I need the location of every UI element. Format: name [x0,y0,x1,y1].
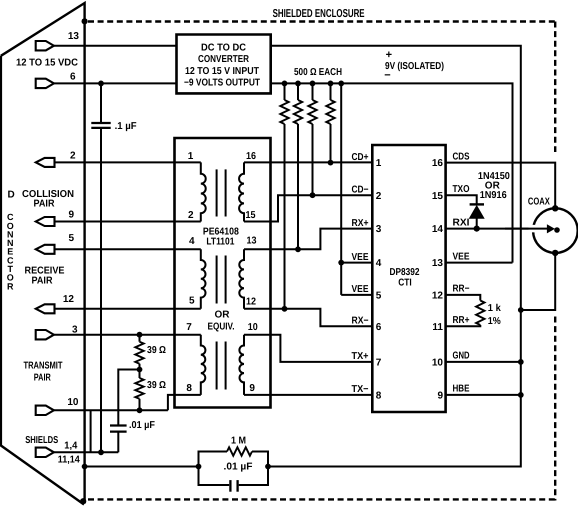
svg-text:.1 µF: .1 µF [115,121,137,132]
svg-text:12: 12 [63,294,75,305]
wire: VEE to pin4 [341,262,372,264]
junction coax shell/rail [518,307,524,313]
connector pin 12 [36,304,55,313]
svg-text:2: 2 [188,210,194,221]
svg-text:RX+: RX+ [352,218,369,229]
shielded enclosure dashed border (right upper) [554,22,556,153]
transformer PE64108 box [175,138,271,408]
svg-text:COAX: COAX [528,196,550,207]
svg-text:9V (ISOLATED): 9V (ISOLATED) [385,61,444,72]
svg-text:4: 4 [376,258,382,269]
RC network bottom frame [199,467,269,486]
wire: pin2 to transformer pin1 [54,161,201,163]
wire: RXI to coax center [446,228,533,230]
svg-text:10: 10 [432,358,444,369]
transformer winding 1-2 (left) [201,162,206,221]
wire: pin13 to DC-DC input (top) [54,45,177,47]
svg-text:13: 13 [247,236,257,247]
svg-text:1N916: 1N916 [480,190,507,201]
svg-text:OR: OR [215,310,231,321]
svg-text:500 Ω EACH: 500 Ω EACH [294,67,342,78]
svg-text:2: 2 [70,151,76,162]
svg-text:GND: GND [453,351,470,362]
svg-text:9: 9 [437,391,443,402]
svg-text:1 k: 1 k [488,303,501,314]
svg-text:4: 4 [189,236,195,247]
transformer winding 7-8 (left) [201,335,206,395]
wire [297,83,299,100]
wire: pin10 line to transformer pin8 [168,395,201,410]
junction: enclosure to D shell (top) [82,18,88,24]
svg-text:13: 13 [432,258,444,269]
junction 500ohm #3 / CD- [310,192,316,198]
wire [284,83,286,100]
wire: 1k to RR+ [446,325,481,326]
svg-text:PAIR: PAIR [34,373,52,384]
junction RC right [265,464,271,470]
svg-text:CD−: CD− [352,184,369,195]
wire: 500ohm #3 down to CD- line [312,124,314,195]
wire: transformer pin12 to RX- (pin6) [244,309,372,326]
junction diode/RXI [474,226,480,232]
wire: pin10 line to shields line [90,410,92,452]
junction between 39 ohm resistors [137,367,143,373]
svg-text:12: 12 [432,291,444,302]
svg-text:14: 14 [432,224,444,235]
svg-text:15: 15 [432,191,444,202]
wire: 39ohm midpoint to .01uF cap [118,370,139,426]
junction 500ohm #4 / CD+ [328,160,334,166]
connector pin 13 [36,41,54,50]
IC DP8392 CTI box [372,145,445,412]
connector pin 6 [36,79,54,88]
svg-text:D: D [7,190,14,201]
svg-text:1: 1 [376,158,382,169]
svg-text:3: 3 [72,324,78,335]
svg-text:HBE: HBE [453,384,470,395]
connector shield pin [36,448,54,457]
svg-text:.01 µF: .01 µF [129,420,155,431]
connector pin 5 [36,245,55,254]
wire: .01uF to shields line [117,432,119,453]
svg-text:11,14: 11,14 [58,454,80,465]
resistor 500 ohm #4 [326,100,334,124]
wire: CDS to coax shell (top) [446,163,556,209]
transformer winding 13-12 (right) [239,249,244,308]
svg-text:VEE: VEE [352,252,369,263]
resistor 500 ohm #3 [308,100,316,124]
svg-text:7: 7 [376,358,382,369]
svg-text:10: 10 [248,322,258,333]
svg-text:39 Ω: 39 Ω [147,380,166,391]
resistor 39 ohm (upper) [135,342,143,364]
wire: shell to RC network [85,466,199,468]
wire: transformer pin9 to TX- (pin8) [244,394,372,396]
wire [139,399,141,411]
svg-text:RR+: RR+ [453,315,470,326]
wire: VEE to pin5 [341,294,372,296]
svg-text:+: + [386,49,392,61]
transformer winding 16-15 (right) [239,162,244,221]
junction .1uF/shields line [98,449,104,455]
svg-text:6: 6 [376,322,382,333]
svg-text:DC TO DC: DC TO DC [201,43,246,54]
svg-text:PAIR: PAIR [32,275,54,286]
wire: coax shell to rail [521,253,555,310]
coax center contact dot [554,227,560,233]
shielded enclosure dashed border (bottom) [88,498,555,500]
svg-text:1 M: 1 M [231,436,246,447]
wire [139,364,141,378]
svg-text:12 TO 15 V INPUT: 12 TO 15 V INPUT [185,66,259,77]
junction 500ohm #4 top [328,81,334,87]
transformer core (section 2) [216,256,218,304]
svg-text:VEE: VEE [453,251,470,262]
svg-text:LT1101: LT1101 [206,236,234,247]
junction GND/rail [518,359,524,365]
shielded enclosure dashed border (top) [88,20,555,22]
svg-text:RX−: RX− [352,315,369,326]
svg-text:R: R [7,281,14,291]
svg-text:.01 µF: .01 µF [224,462,253,473]
diode D1 1N4150 cathode bar [470,203,484,205]
connector pin 3 [36,330,54,339]
svg-text:TX+: TX+ [352,351,369,362]
svg-text:−: − [384,69,390,81]
wire [139,335,141,342]
svg-text:EQUIV.: EQUIV. [208,322,235,333]
svg-text:16: 16 [246,151,256,162]
svg-text:CTI: CTI [398,278,412,289]
svg-text:12 TO 15 VDC: 12 TO 15 VDC [16,58,78,69]
svg-text:SHIELDS: SHIELDS [25,435,58,446]
wire: transformer pin10 to TX+ (pin7) [244,335,372,362]
DC-DC converter box [177,35,271,94]
wire: pin12 to transformer pin5 [54,308,201,310]
junction 39ohm R2 bottom / pin10 line [137,407,143,413]
wire: 500ohm #4 down to CD+ line [330,124,332,163]
svg-text:8: 8 [376,391,382,402]
wire: .1uF cap to shields line [100,128,102,452]
wire: -9V to VEE pins 4,5 [340,83,342,295]
svg-text:12: 12 [246,297,256,308]
resistor 500 ohm #1 [280,100,288,124]
svg-text:1%: 1% [488,316,501,327]
svg-text:15: 15 [246,210,256,221]
junction HBE/rail [518,392,524,398]
transformer core (section 3) [216,342,218,390]
wire: shields line [54,451,118,453]
coax connector (bulkhead) [533,208,578,253]
svg-text:1,4: 1,4 [64,440,77,451]
wire: pin5 to transformer pin4 [54,248,201,250]
wire: pin3 to transformer pin7 [54,334,201,336]
svg-text:6: 6 [70,71,76,82]
svg-text:CDS: CDS [453,151,470,162]
svg-text:RXI: RXI [453,217,470,228]
svg-text:VEE: VEE [352,284,369,295]
svg-text:39 Ω: 39 Ω [147,345,166,356]
svg-text:13: 13 [68,31,80,42]
wire: RR- to 1k [446,295,481,301]
svg-text:TRANSMIT: TRANSMIT [24,360,63,371]
transformer winding 10-9 (right) [239,335,244,395]
svg-text:RR−: RR− [453,284,470,295]
wire: GND to rail [446,361,521,363]
wire: HBE to rail [446,394,521,396]
svg-text:TX−: TX− [352,384,369,395]
connector pin 2 [36,158,55,167]
wire: pin9 to transformer pin2 [54,221,201,223]
junction pin6/.1uF [98,81,104,87]
wire: VEE pin13 to -9V rail [446,262,513,264]
svg-text:5: 5 [376,291,382,302]
wire: pin6 to DC-DC input (bottom) [54,82,177,84]
wire: 500ohm #2 down to RX+ line [297,124,299,249]
coax shell bottom dot [552,250,558,256]
svg-text:9: 9 [249,383,255,394]
D connector shell [1,3,85,505]
wire: to .1uF cap [100,83,102,123]
junction 500ohm #1 / RX- [282,306,288,312]
junction: enclosure to D shell (bottom) [80,498,86,504]
svg-text:9: 9 [68,210,74,221]
wire [330,83,332,100]
wire [312,83,314,100]
capacitor .1uF [91,122,110,124]
wire: transformer pin13 to RX+ (pin3) [244,229,372,250]
connector pin 9 [36,217,55,226]
junction shell/shield line [82,464,88,470]
junction VEE feed top [338,81,344,87]
junction 500ohm #2 / RX+ [295,246,301,252]
transformer winding 4-5 (left) [201,249,206,308]
junction 39ohm R1 top [137,332,143,338]
svg-text:1: 1 [188,151,194,162]
wire: -9V/VEE rail [271,83,513,262]
svg-text:5: 5 [68,233,74,244]
svg-text:5: 5 [189,295,195,306]
svg-text:8: 8 [186,383,192,394]
wire: +9V/GND rail [268,46,521,467]
wire: 500ohm #1 down to RX- line [284,124,286,309]
wire: diode to RXI line [476,218,478,229]
svg-text:11: 11 [432,322,443,333]
RC network top frame [199,452,269,467]
resistor 1M [227,447,252,455]
wire: RXI into coax [505,228,549,230]
wire: transformer pin15 to CD- (pin2) [244,195,372,221]
svg-text:2: 2 [376,191,382,202]
wire: pin10 line [54,409,168,411]
arrowhead into coax [548,225,554,232]
svg-text:CONVERTER: CONVERTER [198,54,250,65]
resistor 500 ohm #2 [294,100,302,124]
svg-text:16: 16 [432,158,444,169]
capacitor .01uF (shield) [110,424,127,426]
wire: transformer pin16 to CD+ (pin1) [244,161,372,163]
svg-text:TXO: TXO [453,184,470,195]
junction RC left [196,464,202,470]
resistor 1k 1% [476,301,484,326]
connector pin 10 [36,406,54,415]
junction 500ohm #1 top [282,81,288,87]
svg-text:3: 3 [376,224,382,235]
resistor 39 ohm (lower) [135,378,143,399]
svg-text:−9 VOLTS OUTPUT: −9 VOLTS OUTPUT [184,78,260,89]
transformer core (section 1) [216,169,218,216]
junction 500ohm #3 top [310,81,316,87]
capacitor .01uF (bottom) [229,480,231,492]
svg-text:CD+: CD+ [352,152,369,163]
svg-text:SHIELDED ENCLOSURE: SHIELDED ENCLOSURE [273,8,365,20]
wire: TXO to diode cathode [446,195,477,204]
junction 500ohm #2 top [295,81,301,87]
junction VEE pin4 [338,260,344,266]
svg-text:PAIR: PAIR [34,198,56,209]
shielded enclosure dashed border (right lower) [554,317,556,501]
svg-text:7: 7 [186,322,192,333]
diode D1 anode triangle [470,206,483,218]
coax shell top dot [552,205,558,211]
svg-text:10: 10 [67,397,79,408]
